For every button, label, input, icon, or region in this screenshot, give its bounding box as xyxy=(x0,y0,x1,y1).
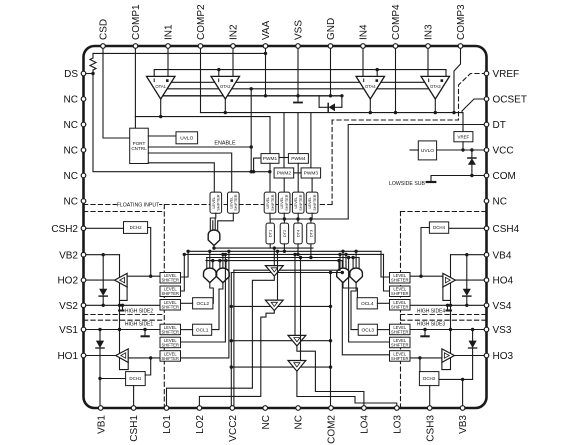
svg-text:IN2: IN2 xyxy=(229,24,240,40)
wire DT4 output xyxy=(297,244,299,255)
VCC2 rail riser to bus s3 xyxy=(339,254,341,270)
svg-text:PWM2: PWM2 xyxy=(277,171,292,177)
label HIGH SIDE1 xyxy=(125,321,154,327)
pin IN3 top xyxy=(426,44,431,49)
svg-text:SHIFTER: SHIFTER xyxy=(299,194,303,211)
bias bus b2 xyxy=(167,88,219,90)
wire VSS pin to supply bus xyxy=(297,46,299,96)
VB2 wire xyxy=(84,254,120,256)
svg-text:UVLO: UVLO xyxy=(180,136,193,142)
svg-text:COMP1: COMP1 xyxy=(131,4,142,40)
dashed boundary high side 4 bottom xyxy=(401,314,487,316)
pin LO1 bottom xyxy=(164,406,169,411)
dead-time bus xyxy=(270,218,348,220)
wire DCH1 to CSH1 xyxy=(133,386,135,408)
bootstrap diode D4 xyxy=(466,255,468,289)
wire driver A4 to HO4 xyxy=(455,279,486,281)
svg-text:LOWSIDE SUB: LOWSIDE SUB xyxy=(389,181,426,187)
wire DS node down and across xyxy=(93,74,270,172)
pin VREF right xyxy=(484,71,489,76)
svg-text:DCH2: DCH2 xyxy=(130,225,143,230)
wire buffer T4 input xyxy=(300,258,302,361)
pin VB1 bottom xyxy=(98,406,103,411)
high-side-4 substrate symbol xyxy=(447,305,449,310)
driver A4 (HO4) xyxy=(443,273,456,287)
svg-text:OTA4: OTA4 xyxy=(365,84,376,89)
wire G4 output to OCL4 xyxy=(343,283,357,298)
svg-text:LEVEL: LEVEL xyxy=(294,197,298,209)
resistor R1 below DS xyxy=(90,58,96,74)
svg-text:COMP3: COMP3 xyxy=(456,4,467,40)
VB4 wire xyxy=(451,254,487,256)
bias bus b1 xyxy=(171,81,214,83)
buffer T1 LO1 driver xyxy=(265,266,283,277)
diode D1 on supply bus xyxy=(318,96,320,108)
op-amp OTA1 xyxy=(147,76,176,99)
svg-text:PORT: PORT xyxy=(133,141,146,146)
COM2 inner rail vertical xyxy=(230,273,232,409)
pin IN4 top xyxy=(361,44,366,49)
svg-text:VS3: VS3 xyxy=(493,325,512,336)
svg-text:VB1: VB1 xyxy=(96,415,107,434)
dashed boundary left vertical xyxy=(163,205,165,409)
pin OCSET right xyxy=(484,97,489,102)
low-side rail r3 xyxy=(231,366,330,368)
label HIGH SIDE4 xyxy=(417,308,446,314)
svg-text:LO2: LO2 xyxy=(195,415,206,434)
level shifter (floating input ch3) xyxy=(306,192,318,213)
dashed boundary high side 3 top xyxy=(401,319,487,321)
svg-text:VCC2: VCC2 xyxy=(228,415,239,442)
wire DCH2 to driver input xyxy=(148,228,151,277)
svg-text:SHIFTER: SHIFTER xyxy=(271,194,275,211)
wire G1 output to bus s1 xyxy=(213,246,215,249)
wire OCL2 to left LS3 xyxy=(181,302,193,304)
VS2 wire xyxy=(84,304,161,306)
svg-text:SHIFTER: SHIFTER xyxy=(161,305,179,310)
pin COMP3 top xyxy=(458,44,463,49)
svg-text:CSH1: CSH1 xyxy=(129,415,140,442)
bootstrap diode D3 xyxy=(99,330,101,341)
svg-text:IN4: IN4 xyxy=(359,24,370,40)
svg-text:SHIFTER: SHIFTER xyxy=(391,291,409,296)
pin COMP2 top xyxy=(198,44,203,49)
svg-text:NC: NC xyxy=(261,415,272,429)
block DCH3 xyxy=(419,372,439,386)
block OCL1 xyxy=(193,324,212,335)
wire PORT CNTRL to UVLO xyxy=(148,135,176,137)
wire floating LS ch1 down to gate G1 xyxy=(210,213,216,231)
svg-text:LEVEL: LEVEL xyxy=(308,197,312,209)
bundle corner to right LS6 xyxy=(342,261,389,355)
wire buffer T3 input xyxy=(294,254,296,335)
svg-text:NC: NC xyxy=(64,120,78,131)
wire UVLO stub xyxy=(410,149,418,151)
wire T2 output to LO2 xyxy=(199,311,274,408)
gate G1 shutdown logic xyxy=(208,230,220,246)
wire COMP4 to bus B xyxy=(395,46,397,113)
wire COMP3 routed down to bus B xyxy=(454,46,461,113)
lowside substrate symbol xyxy=(427,181,436,183)
svg-text:COM2: COM2 xyxy=(327,415,338,444)
wire T4 output to LO3 xyxy=(297,371,397,408)
svg-text:CSH4: CSH4 xyxy=(493,224,520,235)
dashed boundary high-side left top xyxy=(84,211,165,213)
block UVLO (VCC) xyxy=(418,141,436,160)
pin COM right xyxy=(484,173,489,178)
wire DCH4 to driver input xyxy=(421,228,429,277)
svg-text:COMP2: COMP2 xyxy=(196,4,207,40)
pin VB4 right xyxy=(484,252,489,257)
wire PORT CNTRL to floating LS ch1 xyxy=(148,163,214,192)
block DT4 xyxy=(294,223,302,244)
left level shifter LS4 xyxy=(160,324,181,335)
pin CSH1 bottom xyxy=(131,406,136,411)
svg-text:SHIFTER: SHIFTER xyxy=(313,194,317,211)
label HIGH SIDE2 xyxy=(125,308,154,314)
wire OCSET to bus B xyxy=(462,99,487,113)
wire driver A1 to HO1 xyxy=(84,355,116,357)
bootstrap diode D2 xyxy=(102,255,104,289)
pin COMP4 top xyxy=(393,44,398,49)
driver A2 supply hook xyxy=(120,287,128,300)
svg-text:LEVEL: LEVEL xyxy=(229,197,233,209)
wire COMP2 down xyxy=(200,46,202,113)
svg-text:VS2: VS2 xyxy=(59,301,78,312)
pin VS2 left xyxy=(81,303,86,308)
stub OTA4 right input xyxy=(376,70,378,77)
pin VS3 right xyxy=(484,327,489,332)
wire bundle to left LS2 xyxy=(181,254,185,291)
svg-text:OCL3: OCL3 xyxy=(362,328,375,334)
block OCL2 xyxy=(193,298,213,309)
dashed boundary high side 2 bottom xyxy=(84,314,165,316)
block PWM2 xyxy=(274,168,294,178)
svg-text:OCL4: OCL4 xyxy=(361,301,374,307)
pin VB2 left xyxy=(81,252,86,257)
svg-text:CSH3: CSH3 xyxy=(425,415,436,442)
svg-text:VB4: VB4 xyxy=(493,250,512,261)
wire GND pin to supply bus xyxy=(330,46,332,96)
wire gate G1 input b xyxy=(214,218,216,232)
block PORT CNTRL xyxy=(130,128,149,163)
wire DT3 output xyxy=(310,244,312,258)
wire DS pin to resistor node xyxy=(84,73,94,75)
stub OTA2 left input xyxy=(218,70,220,77)
bundle corner to right LS1 xyxy=(381,251,390,277)
right level shifter LS1 (HO4 signal) xyxy=(390,273,411,284)
svg-text:DT2: DT2 xyxy=(282,229,287,237)
high-side supply vertical (right) xyxy=(442,255,451,370)
svg-text:HO1: HO1 xyxy=(57,351,78,362)
pin GND top xyxy=(328,44,333,49)
block UVLO (VAA) xyxy=(176,132,198,144)
svg-text:VB2: VB2 xyxy=(59,250,78,261)
pin CSH4 right xyxy=(484,226,489,231)
block DCH1 xyxy=(126,372,146,386)
pin IN1 top xyxy=(166,44,171,49)
block DT3 xyxy=(307,223,315,244)
svg-text:CNTRL: CNTRL xyxy=(131,146,147,151)
block DCH2 xyxy=(124,222,148,234)
wire DCH3 to CSH3 xyxy=(429,386,431,408)
svg-text:OCL2: OCL2 xyxy=(196,301,209,307)
wire CSH4 to DCH4 xyxy=(449,227,487,229)
pin VAA top xyxy=(263,44,268,49)
signal bus s3 xyxy=(184,253,383,255)
label FLOATING INPUT xyxy=(117,202,159,208)
comparator bus A xyxy=(135,116,270,118)
wire driver A2 input from LS1 xyxy=(127,275,160,277)
pin NC left xyxy=(81,199,86,204)
wire driver A2 to HO2 xyxy=(84,279,115,281)
block DT1 xyxy=(266,223,274,244)
signal bus s5 xyxy=(206,260,342,262)
svg-text:DT1: DT1 xyxy=(268,229,273,237)
wire DCH3 to driver input xyxy=(419,358,421,372)
svg-text:LEVEL: LEVEL xyxy=(280,197,284,209)
pin LO2 bottom xyxy=(197,406,202,411)
VS1 wire xyxy=(84,329,161,331)
svg-text:UVLO: UVLO xyxy=(421,148,434,154)
gate G5 high-side-3 logic xyxy=(350,268,363,283)
IC body outline xyxy=(84,46,487,408)
pin VS4 right xyxy=(484,303,489,308)
right level shifter LS5 xyxy=(390,337,411,348)
wire bus A down to PWM1 xyxy=(269,117,271,154)
wire resistor pull-up to VAA xyxy=(93,53,266,58)
svg-text:OCSET: OCSET xyxy=(493,95,527,106)
wire driver A4 input from right LS1 xyxy=(410,275,443,277)
svg-text:VSS: VSS xyxy=(294,20,305,40)
svg-text:GND: GND xyxy=(326,18,337,40)
pin NC bottom xyxy=(263,406,268,411)
svg-text:LEVEL: LEVEL xyxy=(266,197,270,209)
DT wire from pin to dead-time bus xyxy=(348,125,486,220)
pin VB3 bottom xyxy=(460,406,465,411)
COM wire xyxy=(431,176,487,182)
svg-text:COM: COM xyxy=(493,171,516,182)
zener diode VCC-COM xyxy=(471,150,473,158)
dashed boundary high-side right top xyxy=(401,211,487,213)
svg-text:OTA1: OTA1 xyxy=(155,84,166,89)
pin IN2 top xyxy=(231,44,236,49)
svg-text:FLOATING INPUT: FLOATING INPUT xyxy=(117,202,160,208)
op-amp OTA3 xyxy=(421,76,450,99)
left level shifter LS2 xyxy=(160,286,181,297)
left level shifter LS5 xyxy=(160,337,181,348)
wire OTA3 output to bus B xyxy=(434,99,436,113)
wire G5 output to OCL3 xyxy=(351,283,358,330)
wire IN4 to OTA4 input xyxy=(362,46,364,76)
svg-text:IN3: IN3 xyxy=(424,24,435,40)
signal bus s1 xyxy=(214,247,313,249)
pin LO3 bottom xyxy=(395,406,400,411)
wire PORT CNTRL to floating LS ch2 xyxy=(148,153,231,192)
svg-text:HO3: HO3 xyxy=(493,351,514,362)
driver A2 (HO2) xyxy=(115,273,128,287)
enable vertical from bias bus to DS line xyxy=(250,89,252,172)
wire bundle to right LS5 xyxy=(349,258,390,343)
svg-text:SHIFTER: SHIFTER xyxy=(285,194,289,211)
comparator bus B xyxy=(201,112,463,114)
block OCL3 xyxy=(358,324,377,335)
svg-text:SHIFTER: SHIFTER xyxy=(391,342,409,347)
VCC wire xyxy=(437,149,487,151)
buffer T2 LO2 driver xyxy=(265,300,283,311)
svg-text:DT: DT xyxy=(493,120,506,131)
svg-text:SHIFTER: SHIFTER xyxy=(234,194,238,211)
wire buffer T1 input xyxy=(273,248,275,266)
wire DT1 output xyxy=(269,244,271,248)
svg-text:SHIFTER: SHIFTER xyxy=(161,278,179,283)
level shifter (floating input ch1) xyxy=(210,192,222,213)
pin HO3 right xyxy=(484,353,489,358)
svg-text:NC: NC xyxy=(64,146,78,157)
wires gate G2 inputs xyxy=(206,258,208,270)
left level shifter LS3 xyxy=(160,300,181,311)
block OCL4 xyxy=(357,298,377,309)
svg-text:DS: DS xyxy=(64,69,78,80)
VAA supply bus xyxy=(163,95,342,97)
wire driver A1 input from LS6 xyxy=(128,357,160,359)
wire floating LS ch1 to DT1 xyxy=(269,213,271,219)
high-side-3 substrate symbol xyxy=(424,330,426,336)
ground symbol under VSS xyxy=(297,96,299,102)
svg-text:IN1: IN1 xyxy=(164,24,175,40)
buffer T4 LO3 driver xyxy=(288,361,306,372)
wire junction to DCH3 xyxy=(439,378,473,380)
high-side-2 substrate symbol xyxy=(122,305,124,310)
svg-text:HIGH SIDE2: HIGH SIDE2 xyxy=(125,308,154,314)
dashed boundary high side 1 top xyxy=(84,319,165,321)
svg-text:DT3: DT3 xyxy=(308,229,313,237)
svg-text:PWM1: PWM1 xyxy=(263,156,278,162)
svg-text:LEVEL: LEVEL xyxy=(212,197,216,209)
wire PWM3 to floating LS xyxy=(311,178,313,192)
wire OTA4 output to bus B xyxy=(369,99,371,113)
svg-text:VAA: VAA xyxy=(261,20,272,40)
driver A4 supply hook xyxy=(443,287,451,300)
wire bundle to left LS6 xyxy=(181,251,229,358)
low-side rail r2 xyxy=(231,340,330,342)
svg-text:LO1: LO1 xyxy=(162,415,173,434)
VCC2 rail vertical xyxy=(233,270,235,408)
op-amp OTA2 xyxy=(211,76,240,99)
COM2 inner rail horizontal xyxy=(231,272,342,274)
svg-text:DCH3: DCH3 xyxy=(423,376,436,381)
wires gate G4 inputs xyxy=(338,261,340,270)
svg-text:CSD: CSD xyxy=(99,19,110,40)
bundle corner to right LS2 xyxy=(384,254,390,291)
block DCH4 xyxy=(429,222,448,233)
pin CSH2 left xyxy=(81,226,86,231)
VS3 wire xyxy=(410,329,487,331)
svg-text:SHIFTER: SHIFTER xyxy=(391,305,409,310)
block PWM4 xyxy=(288,154,308,164)
floating input dashed boundary xyxy=(84,204,333,206)
right level shifter LS2 xyxy=(390,286,411,297)
signal bus s4 xyxy=(207,257,359,259)
pin CSD top xyxy=(101,44,106,49)
dashed boundary right vertical xyxy=(400,212,402,409)
svg-text:CSH2: CSH2 xyxy=(51,224,78,235)
svg-text:NC: NC xyxy=(64,197,78,208)
wire IN2 to OTA2 input xyxy=(232,46,234,76)
svg-text:SHIFTER: SHIFTER xyxy=(391,329,409,334)
svg-text:VCC: VCC xyxy=(493,146,514,157)
svg-text:VREF: VREF xyxy=(493,69,520,80)
svg-text:VS1: VS1 xyxy=(59,325,78,336)
buffer T3 LO4 driver xyxy=(288,335,306,346)
svg-text:LO3: LO3 xyxy=(392,415,403,434)
svg-text:PWM3: PWM3 xyxy=(304,171,319,177)
wire gate G1 input d xyxy=(212,221,214,232)
gate G3 high-side-1 logic xyxy=(217,268,230,283)
svg-text:HIGH SIDE1: HIGH SIDE1 xyxy=(125,321,154,327)
pin HO4 right xyxy=(484,278,489,283)
block PWM3 xyxy=(301,168,321,178)
VCC2 rail horizontal xyxy=(234,269,340,271)
wire IN3 to OTA3 input xyxy=(427,46,429,76)
svg-text:DT4: DT4 xyxy=(295,229,300,237)
svg-text:NC: NC xyxy=(493,197,507,208)
wire bundle to left LS1 xyxy=(181,251,189,277)
svg-text:LO4: LO4 xyxy=(360,415,371,434)
svg-text:HO2: HO2 xyxy=(57,276,78,287)
wire VAA pin to supply bus xyxy=(265,46,267,96)
COM2 rail vertical xyxy=(330,273,332,409)
wire PWM4 to floating LS xyxy=(297,163,299,192)
svg-text:OTA3: OTA3 xyxy=(430,84,441,89)
wires gate G3 inputs xyxy=(219,261,221,270)
svg-text:SHIFTER: SHIFTER xyxy=(161,356,179,361)
wire VREF block up to bus B xyxy=(462,113,464,132)
svg-text:OCL1: OCL1 xyxy=(196,328,209,334)
wire floating LS ch3 to DT3 xyxy=(311,213,313,219)
right level shifter LS3 xyxy=(390,300,411,311)
level shifter (floating input ch2b) xyxy=(278,192,290,213)
pin NC left xyxy=(81,173,86,178)
pin VCC2 bottom xyxy=(230,406,235,411)
wire DCH1 to driver input xyxy=(145,358,151,375)
high-side-1 substrate symbol xyxy=(144,330,146,336)
pin HO1 left xyxy=(81,353,86,358)
pin COM2 bottom xyxy=(329,406,334,411)
pin DT right xyxy=(484,122,489,127)
wire bus B down to PWM4 xyxy=(297,113,299,154)
wires gate G5 inputs xyxy=(352,258,354,270)
right level shifter LS6 xyxy=(390,351,411,362)
right level shifter LS4 xyxy=(390,324,411,335)
VS4 wire xyxy=(410,304,487,306)
wire floating LS ch2 to DT2 xyxy=(283,213,285,219)
wire bus B down to PWM2 xyxy=(283,113,285,168)
left level shifter LS6 xyxy=(160,351,181,362)
gate G2 high-side-2 logic xyxy=(204,268,217,283)
bootstrap diode D5 xyxy=(472,330,474,341)
wire CSH2 to DCH2 xyxy=(84,227,124,229)
pin NC left xyxy=(81,148,86,153)
wire DT2 output xyxy=(283,244,285,251)
svg-text:VB3: VB3 xyxy=(458,415,469,434)
pin NC right xyxy=(484,199,489,204)
svg-text:NC: NC xyxy=(294,415,305,429)
svg-text:NC: NC xyxy=(64,171,78,182)
pin VCC right xyxy=(484,148,489,153)
wire IN1 to OTA1 input xyxy=(167,46,169,76)
block VREF xyxy=(454,132,473,142)
